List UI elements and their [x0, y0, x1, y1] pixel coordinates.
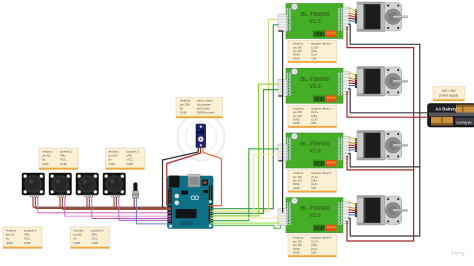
wire driver2 +12V (red) — [347, 92, 429, 117]
svg-text:GND: GND — [109, 162, 117, 166]
wires driver U4 to motor M4 — [349, 202, 357, 215]
svg-text:GND: GND — [24, 241, 32, 245]
svg-text:CW-: CW- — [311, 251, 317, 255]
wire Arduino to driver D3 CW+ (green) — [211, 149, 279, 221]
wire joystick3 5V drop (red) — [86, 197, 88, 207]
wire Arduino to driver D2 CLK+ (green) — [211, 90, 279, 214]
svg-text:888: 888 — [314, 161, 326, 169]
driver U3 left screw terminal — [278, 144, 287, 161]
wire joystick3 VRx drop (magenta) — [91, 197, 93, 218]
svg-text:BL-TB6560: BL-TB6560 — [300, 77, 329, 83]
svg-text:GND: GND — [60, 162, 68, 166]
wire driver3 +12V (red) — [347, 156, 414, 170]
svg-text:BL-TB6560: BL-TB6560 — [300, 142, 329, 148]
wire Arduino to driver D3 CLK+ (paleyellow) — [211, 154, 279, 218]
wire 5V bus to joysticks (dark red) — [33, 206, 171, 208]
stepper driver U1 BL-TB6560 board — [286, 4, 343, 40]
wires driver U3 to motor M3 — [349, 138, 357, 151]
wire Arduino 5V to driver D4 (paleyellow) — [211, 216, 285, 218]
svg-text:CW-: CW- — [311, 121, 317, 125]
label note for driver U1 — [288, 40, 337, 63]
svg-text:GND: GND — [92, 241, 100, 245]
svg-text:GND: GND — [293, 121, 301, 125]
label note for driver U2 — [288, 105, 337, 128]
svg-text:GND: GND — [127, 162, 135, 166]
stepper motor M4 — [355, 196, 408, 226]
wire GND stub driver2 (black) — [279, 95, 283, 97]
label note for joystick 1 — [71, 227, 110, 249]
stepper motor M3 — [355, 131, 408, 161]
wire joystick1 VRx (magenta) — [38, 212, 171, 214]
joystick module J4 — [103, 173, 126, 197]
wire GND daisy-chain (black) — [279, 31, 283, 213]
wire joystick4 VRx (purple) — [119, 219, 171, 221]
wire joystick4 VRx drop (magenta) — [118, 197, 120, 220]
wires driver U2 to motor M2 — [349, 73, 357, 86]
wire Arduino to driver D4 CW+ (green) — [211, 225, 281, 228]
svg-text:AA Battery: AA Battery — [435, 107, 457, 112]
servo motor body — [196, 124, 206, 148]
wire joystick1 GND drop (brown) — [34, 197, 36, 208]
label note 12V/24V power supply — [433, 87, 465, 102]
svg-text:BL-TB6560: BL-TB6560 — [300, 12, 329, 18]
stepper driver U4 BL-TB6560 board — [286, 198, 343, 234]
joystick module J3 — [76, 173, 99, 197]
stepper motor M1 — [355, 2, 408, 32]
wires driver U1 to motor M1 — [349, 8, 357, 21]
wire joystick1 5V drop (red) — [32, 197, 34, 207]
wire Arduino to driver D1 CW+ (yellow) — [211, 19, 279, 211]
svg-text:GND: GND — [42, 162, 50, 166]
label note for joystick 2 — [39, 148, 78, 170]
wire GND stub driver3 (black) — [279, 160, 283, 162]
svg-text:GND: GND — [293, 56, 301, 60]
wire Arduino to driver D2 CW+ (lime) — [211, 84, 279, 216]
wire joystick2 5V drop (red) — [59, 197, 61, 207]
wire servo signal (orange) — [203, 148, 222, 206]
wire joystick4 5V drop (red) — [113, 197, 115, 207]
driver U4 left screw terminal — [278, 209, 287, 226]
svg-text:CW-: CW- — [311, 56, 317, 60]
wire GND bus 2 (brown) — [62, 209, 171, 211]
wire GND bus to joysticks (brown) — [35, 207, 171, 209]
wire joystick3 VRx (magenta) — [92, 217, 171, 219]
driver U1 left screw terminal — [278, 15, 287, 32]
label note for joystick 3 — [106, 148, 145, 170]
wire joystick3 GND drop (brown) — [88, 197, 90, 208]
svg-text:888: 888 — [314, 226, 326, 234]
battery pack (8x AA, 12V) — [428, 104, 474, 128]
wire battery + bus (red) — [347, 27, 414, 241]
wire driver2 GND (black) — [348, 89, 429, 113]
driver U1 right screw terminal — [343, 7, 350, 30]
svg-text:fritzing: fritzing — [451, 251, 465, 256]
driver U3 right screw terminal — [343, 137, 350, 160]
joystick module J1 — [22, 173, 45, 197]
wire Arduino to driver D1 CLK+ (green) — [211, 25, 279, 209]
stepper driver U3 BL-TB6560 board — [286, 133, 343, 169]
wire driver1 GND to bus (black) — [348, 24, 420, 236]
driver U2 right screw terminal — [343, 72, 350, 95]
joystick module J2 — [49, 173, 72, 197]
wire servo GND (black) — [163, 148, 199, 209]
svg-text:GND: GND — [74, 241, 82, 245]
svg-text:V2.0: V2.0 — [309, 213, 321, 219]
svg-text:V2.0: V2.0 — [309, 84, 321, 90]
wire driver3 GND (black) — [348, 154, 420, 167]
label note for driver U4 — [288, 235, 337, 258]
svg-text:GND: GND — [293, 186, 301, 190]
wire switch signal (blue) — [136, 197, 171, 224]
wire joystick1 VRx drop (magenta) — [37, 197, 39, 213]
momentary switch S1 — [132, 183, 139, 199]
label note for driver U3 — [288, 170, 337, 193]
wire switch GND drop (dark red) — [133, 198, 135, 210]
stepper driver U2 BL-TB6560 board — [286, 68, 343, 104]
svg-text:V2.0: V2.0 — [309, 149, 321, 155]
wire joystick4 GND drop (brown) — [115, 197, 117, 208]
stepper motor M2 — [355, 67, 408, 97]
svg-text:888: 888 — [314, 32, 326, 40]
wire Arduino to driver D4 CLK+ (lightgreen) — [211, 221, 279, 223]
svg-text:Loong yo: Loong yo — [456, 121, 471, 125]
svg-text:888: 888 — [314, 96, 326, 104]
svg-text:GND: GND — [180, 110, 188, 114]
svg-text:power supply: power supply — [439, 94, 458, 98]
servo rotation radius circles — [178, 114, 225, 161]
wire joystick2 GND drop (brown) — [61, 197, 63, 208]
svg-text:12V / 24V: 12V / 24V — [442, 89, 457, 93]
driver U2 left screw terminal — [278, 79, 287, 96]
label note for servo — [176, 98, 223, 119]
wire joystick2 VRx drop (magenta) — [64, 197, 66, 216]
svg-text:SG90 brown): SG90 brown) — [197, 110, 215, 114]
wire servo 5V (red) — [167, 148, 201, 206]
svg-text:V2.0: V2.0 — [309, 19, 321, 25]
svg-text:GND: GND — [293, 251, 301, 255]
wire joystick2 VRx (pink) — [65, 215, 171, 217]
svg-text:CW-: CW- — [311, 186, 317, 190]
svg-text:GND: GND — [6, 241, 14, 245]
svg-text:BL-TB6560: BL-TB6560 — [300, 206, 329, 212]
driver U4 right screw terminal — [343, 201, 350, 224]
label note for joystick 4 — [3, 227, 42, 249]
Arduino Uno board — [168, 174, 214, 228]
